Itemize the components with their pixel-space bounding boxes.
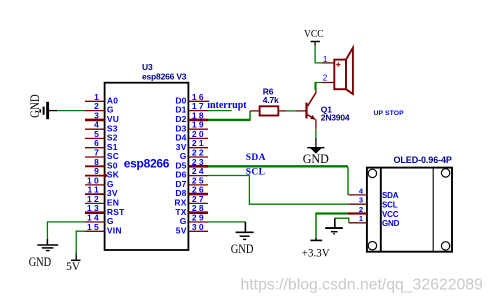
- svg-text:2: 2: [359, 205, 363, 214]
- wire OLED pin1 to ground: [335, 218, 349, 223]
- svg-text:GND: GND: [28, 94, 42, 118]
- pin 16 D0 stub: [188, 100, 208, 102]
- svg-text:5V: 5V: [66, 261, 81, 273]
- pin 17 D1 stub: [188, 110, 208, 112]
- svg-text:GND: GND: [303, 152, 329, 166]
- speaker LS1: [334, 48, 353, 94]
- wire R6 to Q1 base: [287, 110, 296, 112]
- svg-text:VCC: VCC: [382, 210, 399, 219]
- wire pin14 to ground: [47, 222, 85, 239]
- wire jog up: [249, 111, 251, 121]
- svg-text:1: 1: [323, 54, 328, 64]
- OLED pin 1 stub: [349, 222, 367, 224]
- pin 15 VIN stub: [85, 230, 105, 232]
- IC U3 esp8266 body: [105, 83, 189, 250]
- speaker pin1 lead: [322, 62, 334, 64]
- OLED pin 3 stub: [349, 203, 367, 205]
- pin 22 G stub: [188, 156, 208, 158]
- svg-text:U3: U3: [142, 62, 153, 72]
- svg-text:2: 2: [323, 72, 328, 82]
- ground left (rotated earth): [39, 102, 57, 119]
- resistor R6 right lead: [279, 110, 287, 112]
- wire +3.3V to OLED pin2: [316, 212, 348, 214]
- svg-text:OLED-0.96-4P: OLED-0.96-4P: [394, 155, 452, 165]
- pin 18 D2 stub: [188, 119, 208, 122]
- pin 6 S1 stub: [85, 147, 105, 149]
- pin 1 A0 stub: [85, 100, 105, 102]
- wire SDA from pin23: [208, 165, 348, 167]
- wire SCL from pin24: [208, 176, 349, 205]
- pin 21 3V stub: [188, 147, 208, 149]
- ground bottom-left: [37, 239, 58, 251]
- pin 30 5V stub: [188, 230, 208, 232]
- ground near OLED: [325, 218, 343, 234]
- svg-text:4.7k: 4.7k: [263, 95, 279, 105]
- svg-text:interrupt: interrupt: [207, 100, 247, 111]
- svg-text:GND: GND: [382, 219, 400, 228]
- svg-text:SDA: SDA: [246, 153, 266, 163]
- svg-text:UP STOP: UP STOP: [374, 110, 405, 117]
- svg-text:+3.3V: +3.3V: [302, 245, 330, 259]
- wire pin15 to 5V: [76, 231, 85, 253]
- svg-text:SCL: SCL: [382, 201, 398, 210]
- svg-text:VCC: VCC: [304, 29, 324, 40]
- OLED pin 2 stub: [348, 212, 367, 214]
- svg-text:5V: 5V: [176, 225, 187, 235]
- left pin stubs group drawn individually: [85, 92, 208, 236]
- pin 2 G stub: [85, 110, 105, 112]
- pin 20 D4 stub: [188, 137, 208, 139]
- pin 27 RX stub: [188, 202, 208, 204]
- svg-text:https://blog.csdn.net/qq_32622: https://blog.csdn.net/qq_32622089: [241, 277, 484, 294]
- pin 10 G stub: [85, 184, 105, 186]
- wire VCC to speaker pin1: [315, 46, 322, 63]
- pin 24 D6 stub: [188, 175, 208, 177]
- wire Q1 collector up: [315, 90, 317, 93]
- wire SDA down to OLED pin4: [347, 167, 349, 195]
- pin 25 D7 stub: [188, 184, 208, 186]
- svg-text:VIN: VIN: [107, 225, 122, 235]
- svg-text:30: 30: [192, 222, 206, 232]
- power 5V bar: [71, 254, 81, 261]
- svg-text:15: 15: [87, 222, 101, 232]
- pin 11 3V stub: [85, 193, 105, 195]
- power ground under Q1: [307, 148, 324, 154]
- pin 28 TX stub: [188, 211, 208, 214]
- wire pin17 interrupt: [208, 110, 232, 112]
- pin 26 D8 stub: [188, 193, 208, 196]
- pin 4 S3 stub: [85, 128, 105, 130]
- pin 7 SC stub: [85, 156, 105, 158]
- pin 13 RST stub: [85, 211, 105, 214]
- connector J1 OLED-0.96-4P: [367, 168, 452, 252]
- wire speaker pin2 to collector: [315, 83, 322, 91]
- power +3.3V bar: [310, 238, 322, 241]
- pin 14 G stub: [85, 221, 105, 223]
- pin 5 S2 stub: [85, 137, 105, 139]
- transistor Q1: [305, 93, 316, 120]
- wire Q1 emitter down: [315, 119, 317, 129]
- pin 8 S0 stub: [85, 165, 105, 167]
- power VCC bar: [311, 42, 320, 46]
- svg-text:2N3904: 2N3904: [321, 113, 350, 123]
- resistor R6: [260, 106, 279, 115]
- wire GND to pin2: [57, 110, 85, 112]
- svg-text:4: 4: [359, 186, 364, 195]
- svg-text:3: 3: [359, 196, 363, 205]
- pin 19 D3 stub: [188, 128, 208, 130]
- wire pin29 to ground: [208, 221, 245, 223]
- pin 9 clock arrow: [104, 173, 108, 178]
- speaker pin2 lead: [322, 82, 334, 84]
- pin 23 D5 stub: [188, 165, 208, 168]
- Q1 base lead: [296, 110, 305, 112]
- svg-text:esp8266: esp8266: [124, 156, 170, 170]
- svg-text:SCL: SCL: [246, 167, 266, 177]
- ground mid: [236, 222, 254, 240]
- svg-text:1: 1: [359, 214, 363, 223]
- svg-text:SDA: SDA: [382, 191, 399, 200]
- pin 9 SK stub: [85, 175, 105, 177]
- svg-text:GND: GND: [29, 255, 52, 269]
- OLED pin 4 stub: [349, 194, 367, 196]
- resistor R6 left lead: [250, 110, 259, 112]
- svg-text:esp8266 V3: esp8266 V3: [142, 72, 187, 82]
- pin 12 EN stub: [85, 202, 105, 204]
- pin 3 VU stub: [85, 119, 105, 122]
- svg-text:GND: GND: [231, 242, 254, 256]
- wire pin18 to R6: [208, 119, 250, 121]
- pin 29 G stub: [188, 221, 208, 223]
